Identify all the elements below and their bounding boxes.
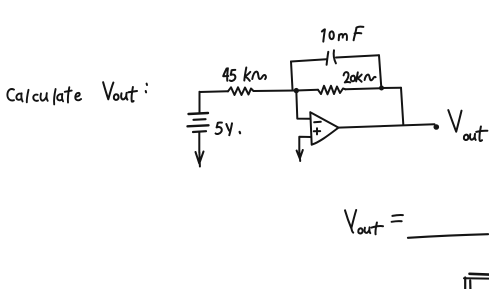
battery V1 plates bbox=[189, 113, 209, 114]
annotation text "Calculate" bbox=[7, 87, 81, 104]
battery bottom lead bbox=[198, 133, 200, 153]
value label 45kOhm bbox=[223, 68, 266, 82]
battery V1 top lead bbox=[199, 92, 201, 113]
op-amp U1 triangle bbox=[310, 112, 338, 145]
wire node A to resistor R2 bbox=[296, 89, 318, 92]
op-amp plus pin mark bbox=[314, 128, 320, 134]
resistor R2 20k zigzag bbox=[318, 86, 346, 95]
wire battery top to resistor R1 bbox=[200, 90, 229, 93]
node B junction dot bbox=[379, 86, 384, 91]
wire op-amp noninverting input to ground bbox=[299, 137, 311, 151]
feedback loop left edge wire bbox=[291, 62, 293, 90]
wire R2 to node B bbox=[346, 88, 382, 89]
feedback right edge wire bbox=[379, 55, 381, 87]
wire R1 to node A bbox=[254, 90, 297, 93]
capacitor C1 left plate bbox=[327, 52, 329, 65]
node A junction dot bbox=[294, 88, 299, 93]
partial box corner bottom-right bbox=[464, 274, 489, 289]
op-amp output wire bbox=[339, 124, 435, 127]
value label 20kOhm bbox=[344, 72, 376, 82]
label Vout at output bbox=[448, 110, 487, 141]
wire down to output bbox=[401, 88, 403, 125]
answer blank line bbox=[408, 234, 488, 238]
ground arrow under op-amp bbox=[297, 150, 303, 161]
annotation text "Vout:" bbox=[103, 82, 147, 101]
feedback top-left wire bbox=[291, 59, 327, 61]
answer label Vout = bbox=[345, 210, 403, 234]
value label 10mF bbox=[322, 27, 364, 42]
output node dot bbox=[434, 124, 440, 130]
capacitor C1 right plate bbox=[334, 50, 336, 63]
wire node A down to op-amp inverting input bbox=[296, 91, 310, 119]
op-amp minus pin mark bbox=[314, 121, 321, 124]
resistor R1 45k zigzag bbox=[228, 87, 254, 95]
wire node B right bbox=[382, 87, 402, 89]
value label 5V. bbox=[216, 122, 241, 135]
ground arrow under battery bbox=[196, 152, 204, 167]
feedback top-right wire bbox=[336, 55, 379, 57]
